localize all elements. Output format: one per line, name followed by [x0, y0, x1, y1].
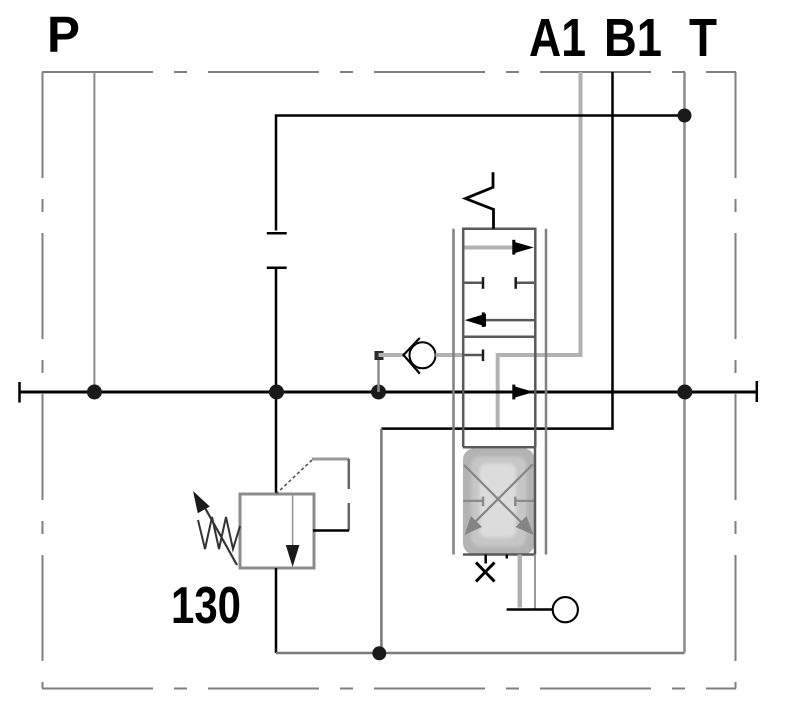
DV1 row1 flow arrow right — [465, 240, 534, 255]
wire check valve outlet — [436, 353, 464, 357]
directional valve DV1 left rail — [452, 229, 455, 555]
RV1 adjustment arrowhead — [193, 491, 210, 513]
DV1 bottom edge — [463, 553, 535, 556]
wire gauge line — [507, 608, 553, 611]
enclosure border right — [735, 72, 737, 689]
check valve V1 ball — [410, 342, 436, 368]
RV1 pilot right drop lower — [348, 503, 351, 531]
junction bottom — [372, 646, 386, 660]
svg-text:T: T — [689, 8, 717, 68]
plugged port X symbol — [476, 563, 495, 582]
junction center main — [269, 385, 284, 400]
plugged line upper bar — [267, 232, 287, 235]
directional valve DV1 right rail — [545, 229, 548, 555]
svg-text:B1: B1 — [604, 8, 662, 68]
wire drain line — [518, 555, 523, 608]
RV1 spring — [198, 517, 240, 549]
junction elbow mark — [375, 351, 384, 360]
DV1 active position port tick left — [463, 497, 483, 507]
DV1 active position port tick right — [515, 497, 534, 507]
RV1 internal flow arrowhead — [286, 545, 300, 567]
DV1 bottom port nub — [506, 555, 509, 559]
svg-text:A1: A1 — [529, 8, 586, 68]
main line left terminator — [18, 382, 21, 403]
junction check branch main — [371, 385, 386, 400]
wire relief valve outlet — [275, 568, 278, 653]
junction at T top — [678, 109, 692, 123]
directional valve DV1 body outline — [463, 229, 535, 447]
wire B1 drop to bottom — [380, 429, 383, 653]
directional valve DV1 lower divider — [463, 446, 535, 449]
DV1 right edge lower extension — [534, 447, 537, 554]
RV1 pilot top run — [312, 458, 349, 461]
DV1 spring lever symbol — [466, 172, 494, 229]
check valve V1 seat — [404, 338, 420, 374]
svg-text:P: P — [47, 6, 80, 63]
wire bottom tank run — [276, 652, 685, 655]
DV1 row2 blocked port right — [516, 277, 534, 289]
RV1 pilot right drop upper — [348, 459, 351, 489]
main line right terminator — [756, 381, 759, 402]
DV1 active position box fill — [463, 448, 535, 554]
wire A1 rail — [498, 72, 581, 428]
plugged line lower bar — [267, 267, 287, 270]
DV1 right edge drain extension — [534, 555, 536, 610]
DV1 row3 flow arrow left — [465, 312, 536, 327]
RV1 internal flow line — [292, 495, 294, 546]
enclosure border bottom — [42, 688, 736, 690]
DV1 crossed arrow A — [464, 465, 534, 535]
RV1 adjustment arrow shaft — [200, 499, 237, 565]
plugged port stub — [484, 555, 487, 564]
RV1 pilot diagonal — [276, 460, 312, 494]
main line P-T — [19, 391, 757, 394]
junction P main — [87, 385, 102, 400]
wire B1 rail — [381, 72, 612, 429]
DV1 main line flow arrow — [514, 385, 534, 400]
DV1 crossed arrow B — [465, 464, 533, 535]
wire top pilot line — [276, 116, 685, 231]
junction T main — [677, 385, 692, 400]
wire check valve inlet — [379, 353, 405, 357]
gauge port circle — [553, 597, 578, 622]
wire P rail — [93, 72, 95, 392]
DV1 row4 blocked port left — [465, 350, 484, 362]
DV1 row2 blocked port left — [465, 277, 484, 289]
RV1 pilot bottom run — [313, 529, 349, 532]
directional valve DV1 section divider — [463, 335, 535, 338]
wire center drop — [275, 268, 278, 494]
enclosure border left — [42, 72, 44, 689]
wire check valve branch riser — [377, 355, 380, 392]
enclosure border top — [42, 71, 736, 73]
svg-text:130: 130 — [171, 577, 241, 635]
wire T rail — [683, 72, 686, 653]
relief valve RV1 body — [240, 494, 314, 568]
